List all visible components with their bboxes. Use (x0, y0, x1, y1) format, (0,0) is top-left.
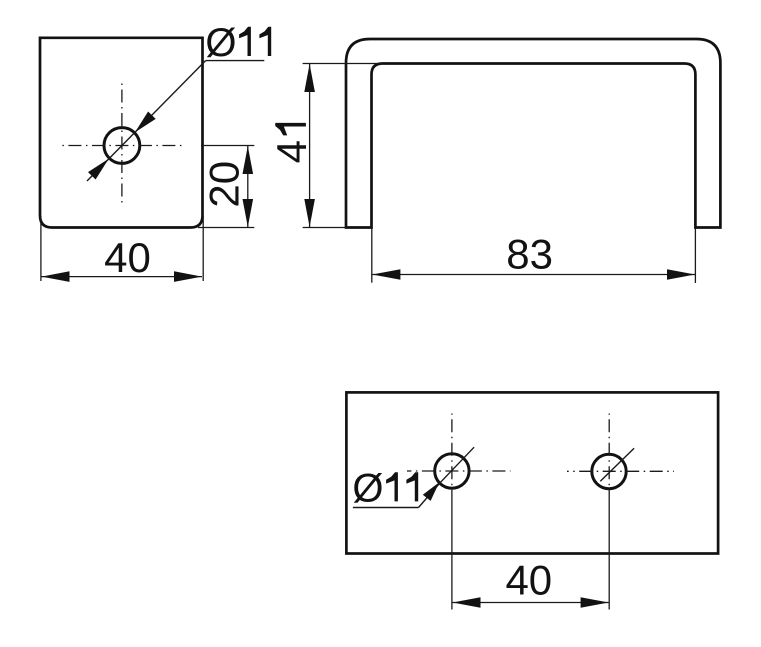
vertical centerline of hole (121, 81, 123, 206)
hole (side view) (104, 128, 140, 164)
dimension 20 : arrow down (243, 199, 254, 227)
svg-text:40: 40 (104, 234, 151, 281)
dimension 20 : arrow up (243, 146, 254, 174)
left hole centerline extension down to dimension (451, 492, 453, 610)
svg-text:20: 20 (200, 161, 247, 208)
dimension 41 : extension line bottom (303, 227, 346, 229)
right hole centerline extension down to dimension (608, 492, 610, 610)
dimension 40 : arrow left (42, 271, 70, 282)
horizontal centerline of hole (62, 145, 185, 147)
dimension 83 : extension line right (694, 229, 696, 284)
dimension 40 spacing : arrow right (581, 597, 609, 608)
dimension 20 : extension line bottom (from plate bottom) (198, 227, 254, 229)
left hole diameter slash (439, 447, 474, 484)
dimension 40 : dimension line (42, 276, 203, 278)
right hole vertical centerline (608, 414, 610, 493)
leader arrowhead lower (points to hole edge) (88, 159, 109, 180)
dimension 20 : dimension line (247, 146, 249, 227)
dimension 41 : arrow up (304, 64, 315, 92)
plate outline (side view) (40, 38, 203, 228)
left hole (top view) (435, 454, 469, 488)
left hole horizontal centerline (407, 470, 511, 472)
dimension 40 (hole spacing) : dimension line (453, 602, 609, 604)
svg-text:40: 40 (505, 557, 552, 604)
svg-text:4: 4 (268, 140, 315, 163)
left hole vertical centerline (451, 414, 453, 493)
dimension 41 : dimension line (309, 64, 311, 227)
svg-text:Ø: Ø (352, 466, 383, 510)
svg-text:83: 83 (506, 230, 553, 277)
right hole diameter slash (600, 448, 634, 481)
dimension 41 : arrow down (304, 199, 315, 227)
dimension 40 spacing : arrow left (453, 597, 481, 608)
dimension 40 : arrow right (174, 271, 202, 282)
leader arrowhead upper (points to hole edge) (135, 112, 156, 133)
leader shoulder under Ø11 (top view) (353, 507, 419, 509)
right hole horizontal centerline (567, 470, 674, 472)
U-channel outline (front view) (346, 39, 720, 228)
right hole (top view) (592, 454, 626, 488)
top view rectangle (346, 392, 718, 553)
leader diagonal to left hole (419, 484, 440, 508)
dimension 83 : dimension line (372, 274, 695, 276)
diameter leader line through hole (87, 61, 206, 181)
dimension 83 : arrow left (372, 269, 400, 280)
dimension 40 : extension line right (202, 216, 204, 281)
svg-text:Ø: Ø (205, 21, 236, 65)
dimension 20 : extension line top (from hole centerline) (201, 145, 254, 147)
dimension 41 : extension line top (303, 63, 383, 65)
dimension 83 : extension line left (371, 229, 373, 283)
dimension 40 (plate width) : extension line left (40, 216, 42, 281)
leader shoulder under Ø11 (206, 60, 265, 62)
leader arrowhead (points to left hole edge) (423, 482, 440, 501)
dimension 83 : arrow right (667, 269, 695, 280)
